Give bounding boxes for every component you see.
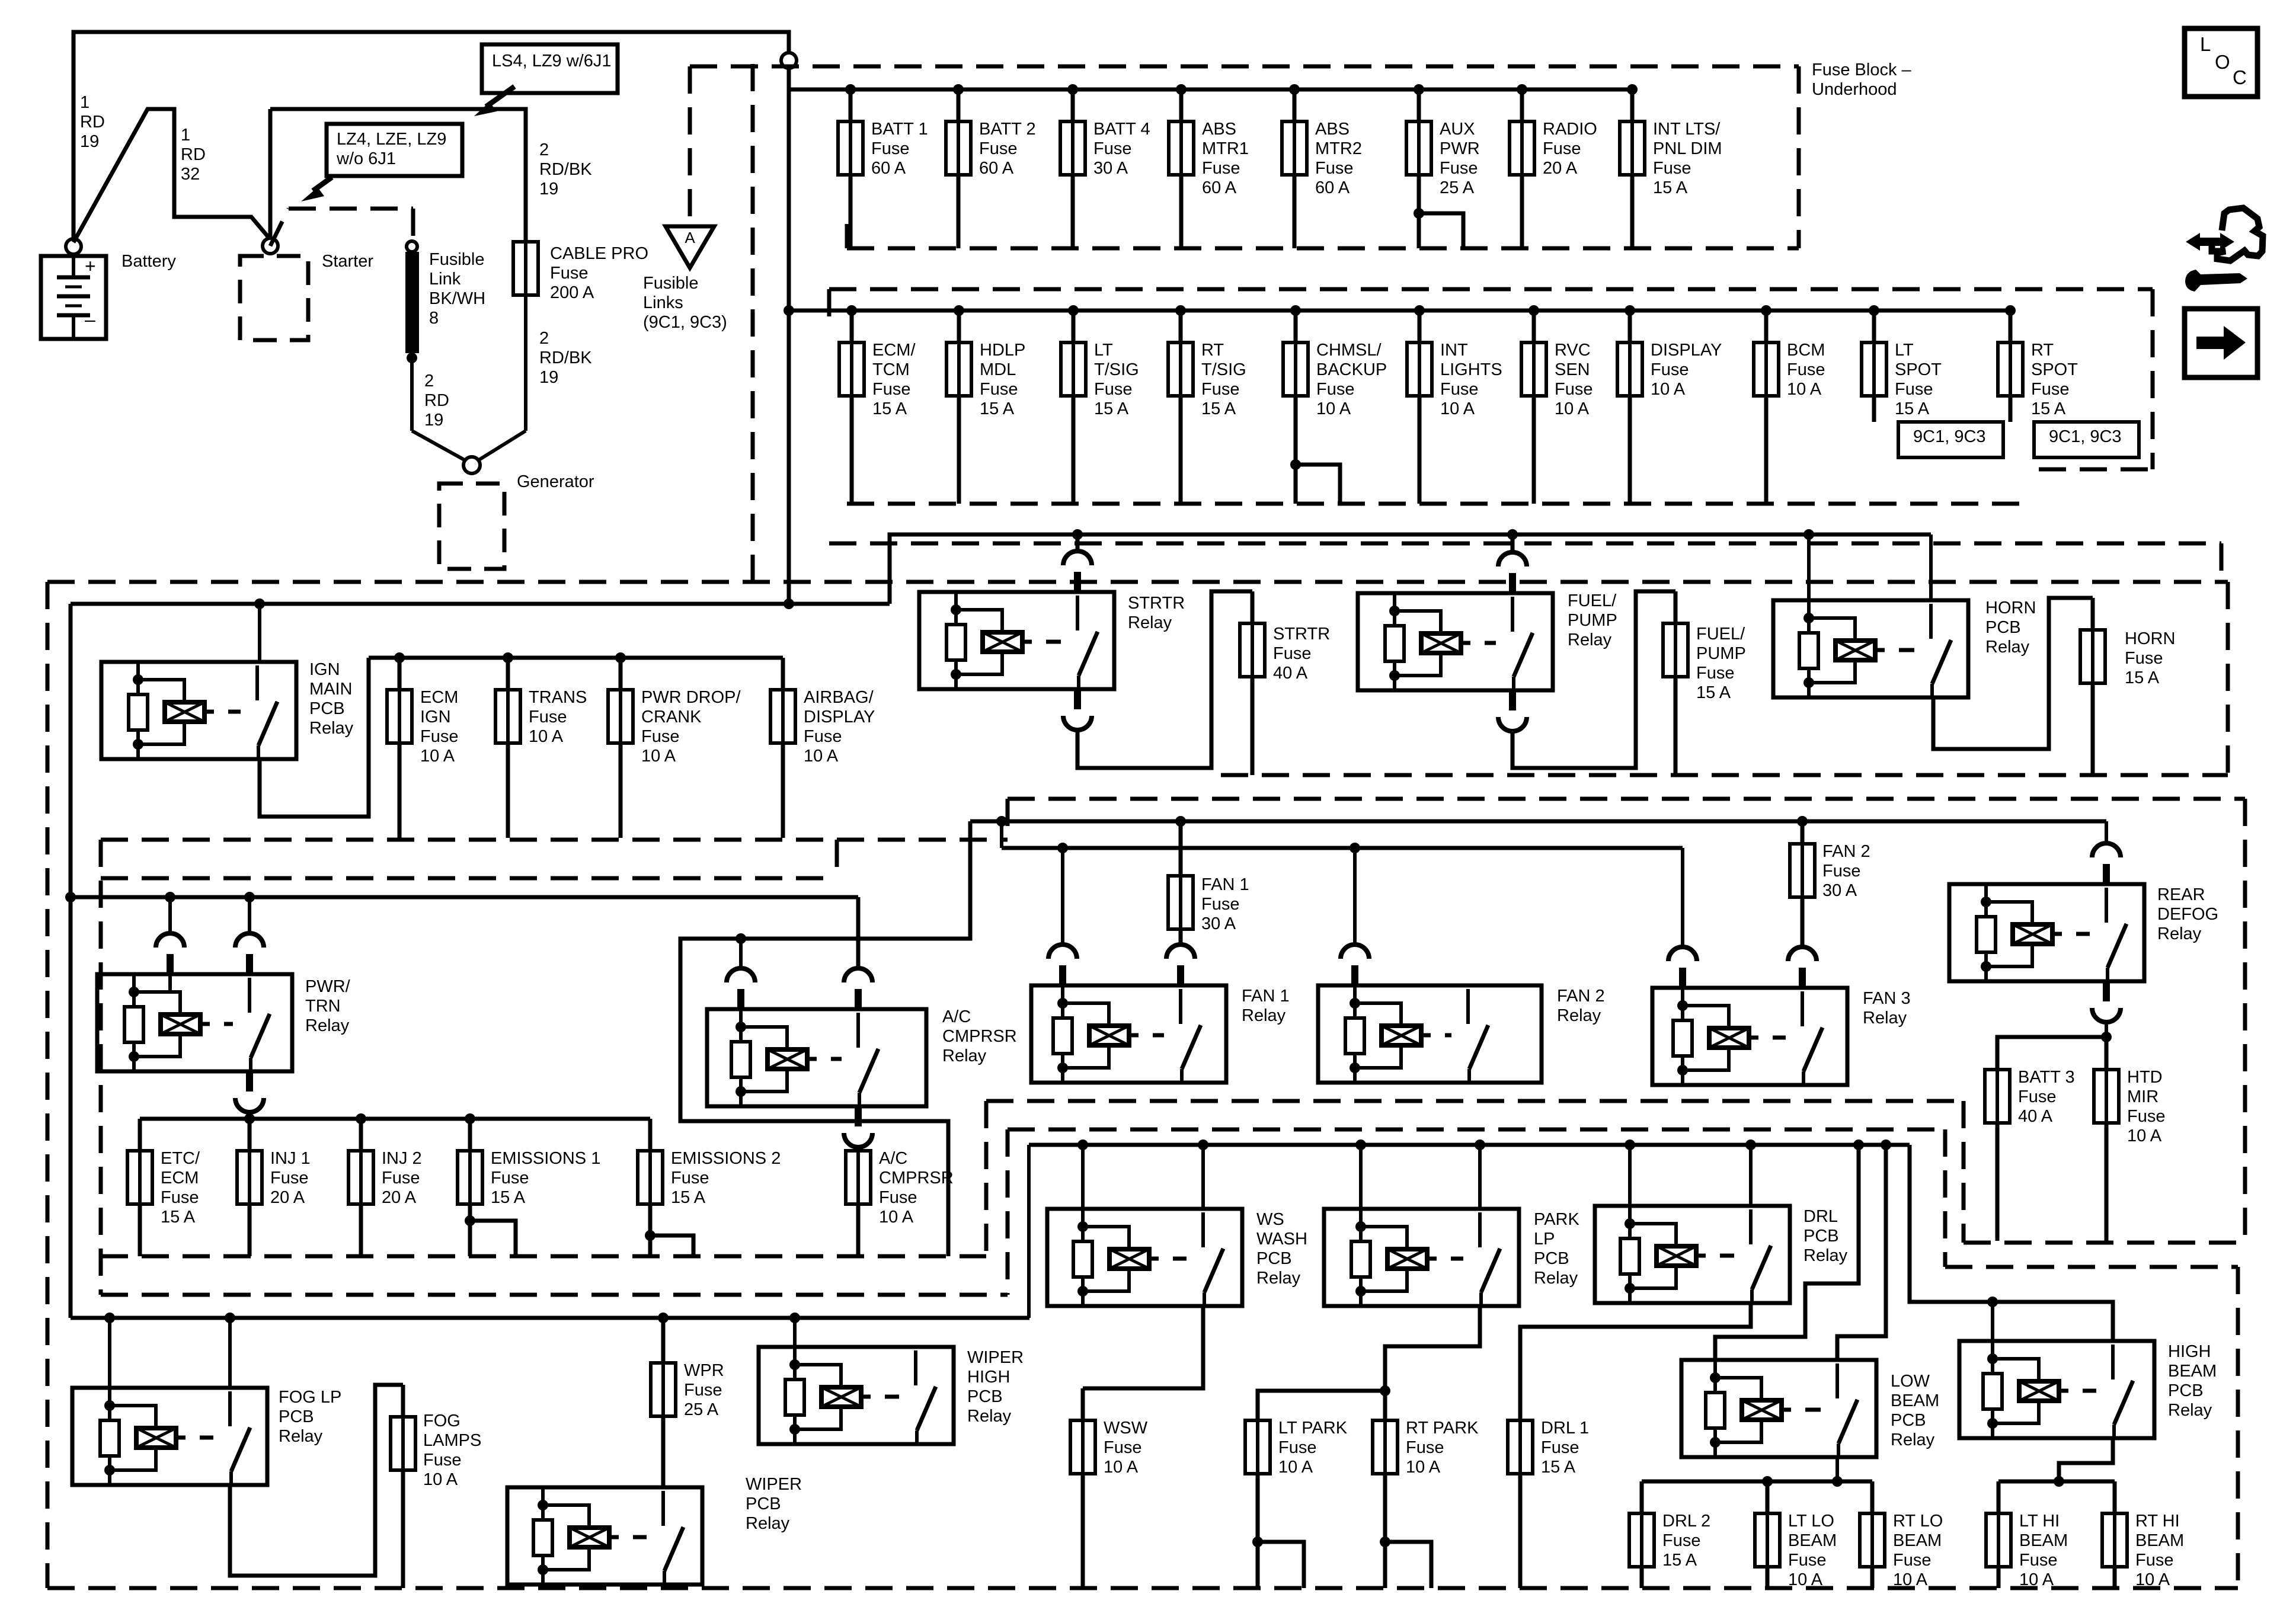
svg-text:+: +: [85, 255, 96, 277]
svg-text:Battery: Battery: [121, 252, 176, 271]
label LZ4 LZE LZ9 box: [327, 124, 462, 176]
fuse ECM/ TCM row2: [846, 305, 857, 316]
svg-text:–: –: [85, 309, 95, 330]
connector box 9C1 9C3 right: [2034, 422, 2139, 457]
fuse TRANS: [503, 652, 513, 663]
fuse CABLE PRO 200A: [513, 242, 538, 295]
wire low beam output bus: [1835, 1457, 1839, 1481]
relay FAN 3: [1652, 947, 1847, 1085]
fuse ETC/: [138, 1119, 142, 1256]
fuse LT T/SIG row2: [1068, 305, 1079, 316]
fuse RT PARK 10A: [1383, 1391, 1387, 1542]
relay FAN 1: [1031, 945, 1226, 1083]
wire park output: [1385, 1306, 1480, 1391]
svg-text:9C1, 9C3: 9C1, 9C3: [1913, 427, 1986, 446]
wire row2 bus: [789, 309, 2010, 313]
wire bus 1514: [71, 895, 858, 900]
LOC legend box: [2185, 28, 2257, 97]
fuse FUEL PUMP 15A: [1674, 591, 1678, 775]
fusible links triangle A: [666, 226, 714, 268]
wire high beam output: [2059, 1438, 2113, 1481]
fuse block row2 dashed box: [829, 287, 2153, 292]
fuse BATT 1 row1: [845, 84, 856, 95]
fuse HTD MIR 10A: [2105, 1037, 2109, 1241]
arrow legend box: [2185, 309, 2257, 377]
wire fan3 coil feed: [1681, 848, 1684, 947]
fuse ECM: [394, 652, 405, 663]
svg-text:WPRFuse25 A: WPRFuse25 A: [684, 1361, 724, 1419]
wire fog output: [230, 1385, 403, 1576]
left compartment dashed boundary: [751, 64, 755, 582]
fuse BATT 3 40A: [1996, 1037, 2000, 1241]
wire main vertical feed: [787, 69, 791, 604]
wire ac switch feed: [856, 897, 861, 968]
svg-text:INJ 1Fuse20 A: INJ 1Fuse20 A: [270, 1149, 311, 1207]
fuse A/C CMPRSR 10A: [856, 1147, 861, 1151]
ws-wash inner dashed staircase: [1008, 1128, 1945, 1132]
wire horn coil feed: [1807, 534, 1811, 600]
relay STRTR: [919, 551, 1114, 730]
label LS4 LZ9 box: [482, 44, 618, 93]
fuse INJ 2: [359, 1119, 363, 1256]
vehicle service icon: [2212, 208, 2263, 261]
wire bus4: [1029, 1143, 1910, 1147]
wire ac surround: [680, 821, 970, 1256]
wire fans bus2: [1000, 821, 1003, 848]
relay PARK LP PCB: [1324, 1209, 1519, 1306]
wire ac coil feed: [739, 939, 743, 968]
wire defog feed: [2105, 821, 2108, 843]
fuse INT LTS/ row1: [1627, 84, 1638, 95]
wire left trunk: [69, 604, 73, 1318]
svg-text:AUXPWRFuse25 A: AUXPWRFuse25 A: [1440, 120, 1480, 197]
wire row1 bus: [789, 88, 1632, 92]
fuse ABS row1: [1289, 84, 1300, 95]
svg-text:ETC/ECMFuse15 A: ETC/ECMFuse15 A: [161, 1149, 200, 1227]
relay WIPER PCB: [507, 1487, 702, 1585]
dashed stub to triangle: [688, 66, 692, 224]
fuse ABS row1: [1176, 84, 1187, 95]
wire defog output: [2105, 1022, 2108, 1037]
wire pwr trn pins: [167, 954, 174, 974]
wire bus3: [71, 1316, 1029, 1320]
wire battery feed top: [73, 32, 789, 239]
wire high beam feed bus: [1910, 1145, 2113, 1341]
svg-text:FAN 2Relay: FAN 2Relay: [1557, 987, 1605, 1025]
fuse RT T/SIG row2: [1175, 305, 1186, 316]
wire ign feed through: [258, 604, 261, 662]
svg-text:INJ 2Fuse20 A: INJ 2Fuse20 A: [382, 1149, 422, 1207]
wire fuel relay output: [1512, 591, 1675, 768]
fuse INJ 1: [248, 1119, 252, 1256]
dashed starter branch: [270, 209, 289, 246]
fuse EMISSIONS 1: [468, 1119, 472, 1221]
relay FAN 2: [1318, 945, 1542, 1083]
wire ign relay output: [260, 658, 369, 817]
fuse INT LIGHTS row2: [1414, 305, 1425, 316]
fusible link BK/WH: [407, 241, 417, 252]
relay A/C CMPRSR: [707, 968, 926, 1147]
generator dashed box: [439, 484, 504, 569]
fuse DRL 1 15A: [1518, 1327, 1523, 1588]
fuse FAN 2 30A: [1801, 821, 1805, 947]
wire strtr relay output: [1077, 591, 1252, 768]
wire battery to starter zigzag: [73, 109, 270, 242]
wire fuel top pin: [1511, 534, 1515, 552]
wire fans bus1: [970, 820, 2106, 824]
relay FUEL PUMP: [1358, 552, 1553, 731]
fuse WSW 10A: [1081, 1388, 1085, 1588]
fuse BATT 2 row1: [953, 84, 964, 95]
fans dashed box top: [1008, 797, 2245, 801]
relay PWR TRN: [97, 933, 292, 1112]
relay band dashed bottom: [1221, 773, 2228, 777]
outer dashed box bottom: [47, 1586, 2238, 1590]
svg-text:FAN 3Relay: FAN 3Relay: [1863, 989, 1911, 1028]
battery B1: [41, 256, 106, 339]
fuse STRTR 40A: [1251, 591, 1255, 775]
fuse EMISSIONS 2: [648, 1119, 653, 1235]
fuse LT PARK 10A: [1256, 1391, 1260, 1542]
outer dashed box left: [46, 582, 50, 1588]
svg-text:BCMFuse10 A: BCMFuse10 A: [1787, 341, 1825, 399]
wire riser to relay feed: [890, 534, 1931, 604]
fuse WPR 25A: [661, 1318, 666, 1487]
defog dashed box bottom: [1962, 1101, 1966, 1243]
fuse RT LO BEAM 10A: [1870, 1481, 1875, 1588]
svg-text:Starter: Starter: [322, 252, 373, 271]
wire low beam switch feed: [1837, 1145, 1886, 1360]
svg-text:L: L: [2200, 33, 2211, 55]
relay HORN PCB: [1773, 600, 1968, 697]
relay LOW BEAM PCB: [1681, 1360, 1876, 1457]
fuse RT HI BEAM 10A: [2113, 1481, 2117, 1588]
connector box 9C1 9C3 left: [1898, 422, 2003, 457]
fuse AIRBAG/: [781, 658, 785, 838]
fuse LT LO BEAM 10A: [1766, 1481, 1770, 1588]
svg-text:Generator: Generator: [517, 472, 594, 491]
high-beam dashed box: [1943, 1129, 1948, 1267]
starter dashed box: [240, 256, 308, 340]
fuse AUX row1: [1414, 84, 1424, 95]
relay FOG LP PCB: [72, 1388, 267, 1485]
wire drl output to DRL1: [1520, 1303, 1751, 1420]
node starter terminal: [263, 238, 278, 254]
wire bus3-bus4 link: [1027, 1145, 1031, 1318]
wire strtr top pin: [1076, 534, 1080, 551]
ws-wash outer dashed staircase: [986, 1099, 1964, 1103]
node generator terminal: [463, 457, 480, 473]
svg-text:Fuse Block –Underhood: Fuse Block –Underhood: [1812, 60, 1911, 99]
fuse CHMSL/ BACKUP row2: [1290, 305, 1301, 316]
outer dashed box top: [47, 580, 2228, 584]
relay IGN MAIN PCB: [101, 662, 296, 759]
wire starter to LS4 line: [268, 109, 273, 239]
arrow LS4 callout: [486, 87, 514, 107]
fuse BATT 4 row1: [1067, 84, 1078, 95]
fuse HORN 15A: [2091, 598, 2095, 775]
wire V to generator: [412, 431, 466, 461]
fuse LT SPOT row2: [1869, 305, 1879, 316]
svg-text:9C1, 9C3: 9C1, 9C3: [2049, 427, 2122, 446]
relay HIGH BEAM PCB: [1959, 1341, 2154, 1438]
node battery positive terminal: [66, 239, 81, 254]
svg-text:A: A: [685, 229, 695, 247]
fuse RADIO row1: [1517, 84, 1527, 95]
relay WS WASH PCB: [1047, 1209, 1242, 1306]
wire pwr trn output: [248, 1112, 251, 1119]
fuse RVC SEN row2: [1528, 305, 1539, 316]
fuse HDLP MDL row2: [954, 305, 964, 316]
fuse DISPLAY row2: [1625, 305, 1635, 316]
fuse RT SPOT row2: [2005, 305, 2016, 316]
relay DRL PCB: [1595, 1206, 1790, 1303]
wire low beam coil feed: [1715, 1145, 1859, 1360]
wire fan1 coil feed: [1061, 848, 1064, 945]
fuse DRL 2 15A: [1640, 1481, 1644, 1588]
fuse LT HI BEAM 10A: [1997, 1481, 2001, 1588]
wire ign fuse bus: [369, 656, 783, 660]
svg-text:HTDMIRFuse10 A: HTDMIRFuse10 A: [2127, 1068, 2165, 1145]
svg-text:FUEL/PUMPRelay: FUEL/PUMPRelay: [1568, 591, 1617, 649]
wire fan2 coil feed: [1353, 848, 1357, 945]
relay WIPER HIGH PCB: [759, 1347, 954, 1444]
wire engine fuse bus: [140, 1117, 650, 1121]
fuse PWR DROP/: [615, 652, 626, 663]
fuse FOG LAMPS 10A: [401, 1385, 405, 1588]
wire ws wash output to WSW fuse: [1083, 1306, 1203, 1388]
wire bus 1019: [71, 602, 890, 606]
svg-text:C: C: [2233, 66, 2247, 88]
svg-text:ECMIGNFuse10 A: ECMIGNFuse10 A: [420, 688, 458, 766]
fuse BCM row2: [1761, 305, 1771, 316]
svg-text:O: O: [2215, 51, 2230, 73]
wire horn switch feed: [1929, 534, 1933, 600]
relay REAR DEFOG: [1949, 843, 2144, 1022]
svg-text:LS4, LZ9 w/6J1: LS4, LZ9 w/6J1: [492, 52, 612, 71]
svg-text:RVCSENFuse10 A: RVCSENFuse10 A: [1555, 341, 1593, 418]
mid-left dashed corridor: [101, 838, 1008, 842]
wire cable pro down: [524, 295, 527, 431]
wire horn relay output: [1933, 598, 2093, 749]
node main feed junction: [781, 53, 797, 68]
svg-text:FAN 1Relay: FAN 1Relay: [1242, 987, 1290, 1025]
fuse FAN 1 30A: [1179, 821, 1183, 945]
fuse block row1 dashed box: [690, 65, 1799, 69]
arrow LZ4 callout: [313, 177, 332, 191]
